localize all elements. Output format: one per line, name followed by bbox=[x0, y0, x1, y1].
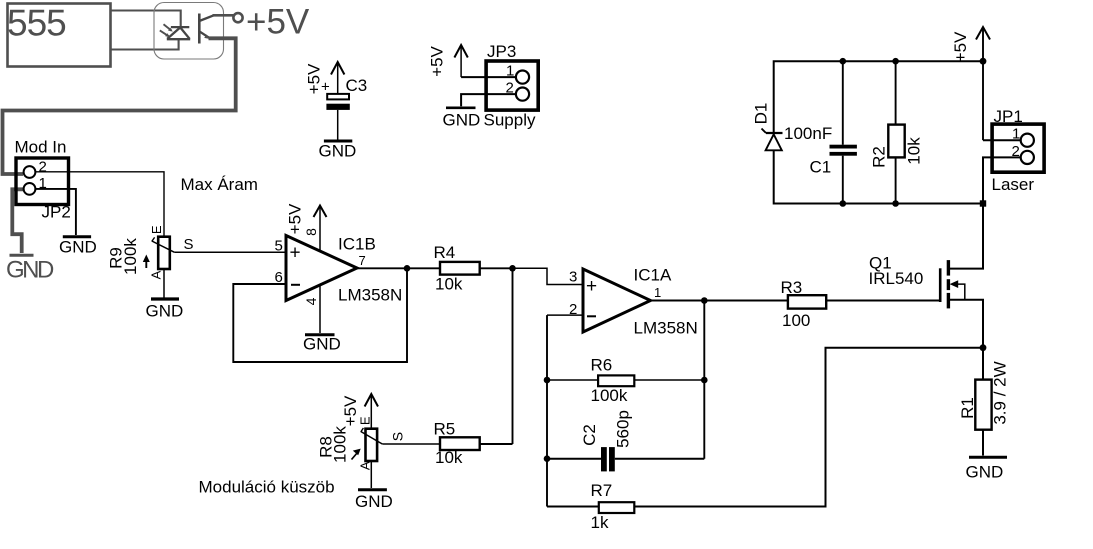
junction bbox=[544, 455, 551, 462]
svg-text:+5V: +5V bbox=[951, 31, 970, 62]
resistor R7 bbox=[599, 502, 635, 513]
diode D1 bbox=[762, 129, 783, 151]
svg-text:R1: R1 bbox=[958, 397, 977, 419]
svg-text:R5: R5 bbox=[434, 420, 456, 439]
svg-text:GND: GND bbox=[303, 335, 341, 354]
+5V terminal circle bbox=[233, 13, 242, 22]
svg-text:100k: 100k bbox=[591, 386, 628, 405]
wire R4 to junction bbox=[480, 267, 513, 269]
JP1 pin 2 bbox=[1021, 151, 1034, 164]
junction bbox=[404, 265, 411, 272]
svg-text:E: E bbox=[149, 225, 164, 234]
svg-text:10k: 10k bbox=[435, 448, 463, 467]
ground under C3 bbox=[324, 140, 352, 143]
svg-text:GND: GND bbox=[6, 257, 54, 284]
connector JP1 bbox=[992, 124, 1044, 172]
wire IC1A pin2 bbox=[547, 314, 583, 316]
resistor R6 bbox=[598, 375, 634, 386]
svg-text:R4: R4 bbox=[434, 243, 456, 262]
wire R5 right bbox=[480, 443, 513, 445]
junction bbox=[701, 297, 708, 304]
ground under R9 bbox=[151, 297, 179, 300]
svg-text:100: 100 bbox=[782, 311, 810, 330]
wire JP2 pin1 to gray ground bbox=[12, 189, 23, 253]
capacitor C1 bbox=[842, 61, 844, 145]
svg-text:+5V: +5V bbox=[428, 45, 447, 76]
svg-text:1: 1 bbox=[654, 285, 661, 300]
junction source node bbox=[980, 344, 987, 351]
light arrows bbox=[160, 24, 172, 36]
phototransistor (inside opto) bbox=[198, 14, 201, 44]
junction bbox=[509, 265, 516, 272]
junction bbox=[980, 58, 987, 65]
svg-text:D1: D1 bbox=[752, 103, 771, 125]
connector JP3 bbox=[486, 61, 538, 110]
555 block bbox=[8, 4, 111, 67]
drain wire bbox=[948, 206, 983, 269]
svg-text:+5V: +5V bbox=[246, 3, 310, 42]
resistor R4 bbox=[440, 262, 480, 275]
IC1B minus input mark bbox=[291, 284, 300, 286]
wire JP2 pin2 to R9 top bbox=[35, 172, 164, 237]
junction (square) bbox=[980, 200, 986, 206]
wire pin2 node down bbox=[546, 315, 548, 506]
op-amp IC1B bbox=[286, 236, 357, 301]
wire output node down bbox=[703, 301, 705, 459]
svg-text:Laser: Laser bbox=[992, 175, 1035, 194]
feedback wire IC1B pin6 loop bbox=[233, 268, 407, 362]
ground under JP2 bbox=[63, 235, 91, 238]
+5V arrow R8 bbox=[370, 395, 372, 429]
svg-text:S: S bbox=[390, 432, 406, 441]
svg-text:1: 1 bbox=[506, 63, 514, 80]
svg-text:R3: R3 bbox=[781, 278, 803, 297]
svg-text:GND: GND bbox=[355, 492, 393, 511]
svg-text:JP2: JP2 bbox=[42, 203, 71, 222]
svg-text:2: 2 bbox=[39, 159, 47, 176]
JP2 pin 2 bbox=[24, 166, 36, 178]
wire R9 to ground bbox=[163, 269, 165, 298]
wire to C2 bbox=[547, 458, 601, 460]
wire junction down to R5 bbox=[512, 268, 514, 444]
wire IC1B output bbox=[357, 267, 440, 269]
IC1A minus input mark bbox=[587, 315, 596, 317]
svg-text:100nF: 100nF bbox=[784, 124, 832, 143]
bottom rail wire bbox=[774, 150, 983, 203]
gray ground bar bbox=[10, 254, 34, 257]
svg-text:10k: 10k bbox=[905, 137, 924, 165]
wire collector to +5V terminal bbox=[213, 14, 234, 17]
+5V arrow C3 bbox=[337, 63, 339, 94]
svg-text:2: 2 bbox=[1012, 143, 1020, 160]
+5V arrow JP3 bbox=[460, 46, 462, 77]
ground under R1 bbox=[969, 456, 1007, 459]
wire R8 to ground bbox=[370, 461, 372, 488]
svg-text:S: S bbox=[184, 236, 194, 253]
ground under JP3 bbox=[446, 107, 476, 110]
wire C2 right bbox=[615, 458, 705, 460]
svg-text:3.9 / 2W: 3.9 / 2W bbox=[991, 361, 1010, 424]
JP1 pin 1 bbox=[1021, 134, 1034, 147]
svg-text:Supply: Supply bbox=[484, 111, 536, 130]
JP2 pin 1 bbox=[24, 183, 36, 195]
resistor R1 bbox=[975, 380, 991, 430]
wire JP1 pin2 down to Q1 drain bbox=[983, 157, 1021, 268]
wire emitter down-left loop to JP2 pin2 bbox=[3, 38, 236, 174]
wire to JP1 pin1 bbox=[983, 139, 1021, 141]
svg-text:4: 4 bbox=[303, 297, 319, 305]
resistor R5 bbox=[440, 437, 480, 450]
wire R3 to gate bbox=[826, 300, 940, 302]
svg-text:JP3: JP3 bbox=[487, 42, 516, 61]
JP3 pin 1 bbox=[516, 71, 529, 84]
potentiometer R9 bbox=[158, 237, 170, 269]
wire to JP3 pin1 bbox=[461, 76, 516, 78]
svg-text:C2: C2 bbox=[580, 424, 599, 446]
svg-text:1: 1 bbox=[1012, 126, 1020, 143]
svg-text:+: + bbox=[290, 243, 301, 264]
svg-text:7: 7 bbox=[359, 253, 366, 268]
svg-text:R7: R7 bbox=[591, 481, 613, 500]
svg-text:IC1A: IC1A bbox=[634, 266, 672, 285]
R9 trimmer arrow bbox=[145, 259, 147, 268]
wire R1 to ground bbox=[982, 430, 984, 456]
svg-text:560p: 560p bbox=[614, 410, 633, 448]
wire junction to IC1A pin3 bbox=[513, 268, 584, 284]
wire IC1A output bbox=[651, 300, 789, 302]
op-amp IC1A bbox=[583, 269, 651, 332]
R8 trimmer arrow bbox=[352, 453, 358, 460]
wire JP3 pin2 to ground bbox=[461, 94, 516, 106]
connector JP2 bbox=[16, 158, 69, 205]
potentiometer R8 bbox=[366, 429, 378, 461]
svg-text:GND: GND bbox=[319, 142, 357, 161]
svg-text:GND: GND bbox=[59, 238, 97, 257]
svg-text:Mod In: Mod In bbox=[15, 138, 67, 157]
ground under R8 bbox=[358, 488, 387, 491]
svg-text:10k: 10k bbox=[435, 275, 463, 294]
wire JP2 pin1 to GND bbox=[35, 189, 76, 235]
transistor Q1 bbox=[940, 206, 983, 348]
optocoupler OK1 body bbox=[154, 3, 224, 60]
junction bbox=[701, 377, 708, 384]
svg-text:C3: C3 bbox=[346, 76, 368, 95]
svg-text:5: 5 bbox=[275, 238, 283, 255]
svg-text:GND: GND bbox=[146, 302, 184, 321]
svg-text:100k: 100k bbox=[121, 238, 140, 275]
wire to R6 bbox=[547, 379, 598, 381]
svg-text:GND: GND bbox=[443, 111, 481, 130]
IC1B pin8 +5V arrow bbox=[319, 206, 321, 252]
wire R9 wiper to IC1B pin5 bbox=[174, 251, 286, 253]
svg-text:R6: R6 bbox=[591, 356, 613, 375]
capacitor C3 bbox=[327, 94, 349, 100]
svg-text:Moduláció küszöb: Moduláció küszöb bbox=[199, 478, 335, 497]
wire to R1 bbox=[982, 348, 984, 380]
IC1B pin4 GND stub bbox=[319, 285, 321, 334]
wire R6 right bbox=[634, 379, 704, 381]
svg-text:LM358N: LM358N bbox=[634, 319, 698, 338]
svg-text:R2: R2 bbox=[870, 146, 889, 168]
wire R7 to source node bbox=[634, 348, 982, 507]
svg-text:Max Áram: Max Áram bbox=[181, 175, 258, 194]
svg-text:8: 8 bbox=[303, 228, 319, 236]
svg-text:A: A bbox=[358, 461, 373, 470]
JP3 pin 2 bbox=[516, 88, 529, 101]
wire to R7 bbox=[547, 506, 599, 508]
svg-text:1k: 1k bbox=[591, 513, 609, 532]
svg-text:A: A bbox=[149, 270, 164, 279]
junction bbox=[544, 377, 551, 384]
svg-text:555: 555 bbox=[7, 3, 66, 44]
svg-text:+5V: +5V bbox=[286, 203, 305, 234]
svg-text:IRL540: IRL540 bbox=[869, 269, 924, 288]
ground under IC1B bbox=[305, 333, 335, 336]
svg-text:+: + bbox=[586, 276, 597, 297]
wire R8 wiper to R5 bbox=[382, 443, 440, 445]
svg-text:IC1B: IC1B bbox=[338, 235, 376, 254]
svg-text:GND: GND bbox=[966, 463, 1004, 482]
resistor R3 bbox=[788, 295, 826, 308]
+5V arrow JP1 bbox=[982, 28, 984, 140]
wire 555 to LED cathode bbox=[111, 11, 181, 28]
top rail wire bbox=[774, 61, 983, 133]
svg-text:3: 3 bbox=[569, 269, 577, 286]
body diode arrow bbox=[955, 284, 965, 300]
svg-text:LM358N: LM358N bbox=[338, 286, 402, 305]
svg-text:C1: C1 bbox=[810, 158, 832, 177]
svg-text:100k: 100k bbox=[331, 426, 350, 463]
source wire bbox=[948, 300, 983, 348]
svg-text:2: 2 bbox=[506, 80, 514, 97]
svg-text:E: E bbox=[357, 416, 372, 425]
LED D (inside opto) bbox=[167, 27, 190, 39]
resistor R2 bbox=[895, 61, 897, 124]
wire 555 to LED anode bbox=[111, 39, 179, 49]
capacitor C2 bbox=[601, 447, 607, 471]
